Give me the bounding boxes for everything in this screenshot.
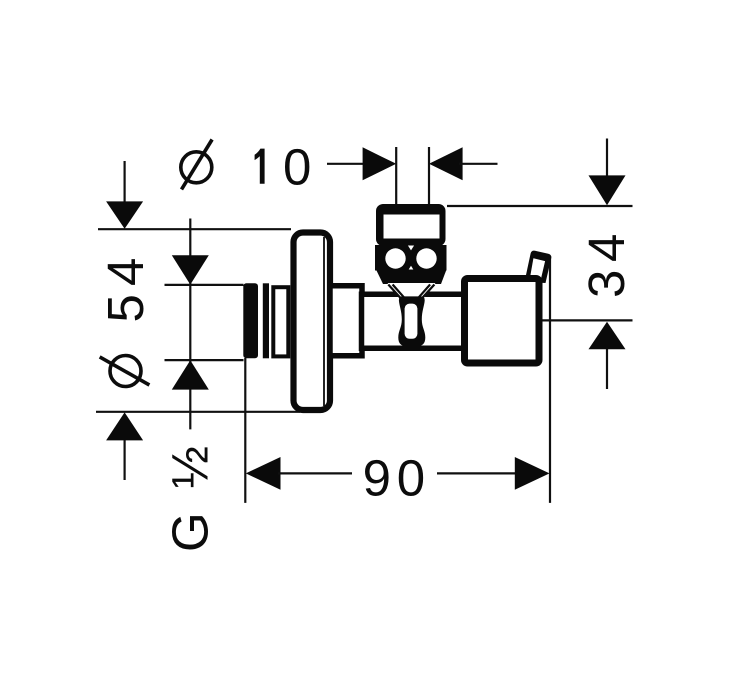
arrow down at thread top bbox=[172, 255, 209, 284]
neck slant lines bbox=[388, 285, 434, 299]
label G 1/2 bbox=[162, 446, 219, 552]
outlet block bbox=[465, 279, 540, 364]
dimension line 90 left segment bbox=[278, 472, 352, 474]
extension line flange top bbox=[98, 228, 291, 230]
outlet lever bbox=[525, 251, 552, 283]
dimension line D10 left segment bbox=[327, 163, 367, 165]
arrow left at stem right bbox=[429, 147, 463, 180]
extension line 90 right bbox=[549, 256, 551, 503]
arrow right at stem left bbox=[363, 147, 397, 180]
thread fitting band 2 bbox=[263, 283, 269, 358]
label diameter symbol top bbox=[181, 140, 212, 190]
thread fitting band 1 bbox=[243, 283, 258, 358]
neck white area over pipe edge bbox=[388, 283, 436, 300]
tick pipe axis right bbox=[543, 319, 633, 321]
extension line 90 left bbox=[244, 358, 246, 503]
dimension arrow down 34 top bbox=[589, 139, 626, 206]
handle shoulder with circles bbox=[375, 245, 447, 271]
arrow right 90 bbox=[515, 457, 550, 490]
dimension arrow down at flange top bbox=[106, 161, 143, 229]
arrow left 90 bbox=[246, 457, 281, 490]
label 34 bbox=[578, 234, 635, 298]
svg-text:G: G bbox=[162, 512, 219, 552]
extension line valve top right bbox=[447, 205, 633, 207]
handle stem cap bbox=[376, 204, 446, 246]
label 54 bbox=[97, 258, 154, 323]
dimension arrow up 34 bottom bbox=[589, 322, 626, 389]
dimension line 90 right segment bbox=[437, 472, 522, 474]
svg-text:4: 4 bbox=[578, 234, 635, 262]
label 10 bbox=[255, 138, 312, 195]
tick thread top bbox=[165, 284, 244, 286]
tick thread bottom bbox=[165, 359, 244, 361]
label diameter symbol left bbox=[100, 356, 150, 387]
dimension line G1/2 thread bbox=[189, 219, 191, 430]
svg-text:0: 0 bbox=[283, 138, 311, 195]
svg-text:3: 3 bbox=[578, 270, 635, 298]
svg-text:0: 0 bbox=[397, 449, 425, 506]
wall flange bbox=[294, 233, 331, 411]
svg-text:½: ½ bbox=[162, 446, 219, 489]
arrow up at thread bottom bbox=[172, 360, 209, 389]
label 90 bbox=[363, 449, 426, 506]
stem extension line right bbox=[428, 147, 430, 208]
dimension arrow up at flange bottom bbox=[106, 412, 143, 480]
stem extension line left bbox=[395, 147, 397, 208]
svg-text:5: 5 bbox=[97, 294, 154, 322]
pipe stub right of flange bbox=[330, 286, 362, 356]
thread fitting nut bbox=[273, 287, 288, 356]
handle taper bbox=[376, 270, 447, 285]
dimension line D10 right segment bbox=[459, 163, 498, 165]
svg-text:9: 9 bbox=[363, 449, 391, 506]
pipe body bbox=[362, 294, 465, 348]
valve spool bbox=[398, 296, 425, 346]
extension line flange bottom bbox=[96, 411, 300, 413]
svg-text:4: 4 bbox=[97, 258, 154, 286]
